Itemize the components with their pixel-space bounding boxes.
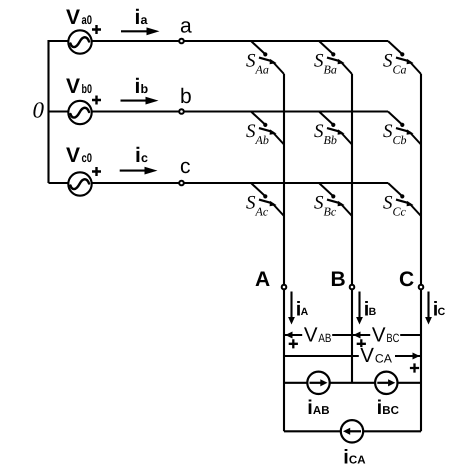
current iC arrow	[425, 292, 446, 325]
switch SCa	[383, 41, 421, 77]
voltage VBC arrow	[352, 324, 421, 349]
current source iBC	[375, 372, 399, 419]
svg-text:S: S	[246, 193, 256, 214]
svg-text:i: i	[135, 144, 141, 167]
wire output A	[283, 74, 285, 431]
svg-text:S: S	[314, 51, 324, 72]
svg-text:Bb: Bb	[324, 133, 337, 147]
svg-text:B: B	[331, 268, 346, 291]
svg-text:V: V	[360, 344, 374, 367]
node a	[179, 14, 192, 43]
svg-text:V: V	[66, 75, 80, 98]
switch SBb	[314, 112, 352, 148]
svg-text:S: S	[246, 121, 256, 142]
wire line c	[49, 182, 389, 184]
svg-text:BC: BC	[386, 331, 399, 345]
node b	[179, 85, 191, 114]
svg-text:V: V	[304, 324, 318, 347]
switch SAb	[246, 112, 284, 148]
voltage source Vb0	[66, 75, 101, 124]
svg-text:V: V	[372, 324, 386, 347]
svg-text:b: b	[141, 82, 149, 96]
current ic arrow	[120, 144, 158, 174]
voltage source Va0	[66, 6, 101, 54]
wire output C	[420, 74, 422, 431]
node C	[399, 268, 423, 291]
svg-text:AB: AB	[318, 331, 331, 345]
svg-text:a0: a0	[82, 13, 93, 27]
svg-text:S: S	[314, 121, 324, 142]
current ia arrow	[121, 6, 160, 35]
voltage source Vc0	[66, 144, 101, 196]
svg-text:A: A	[301, 306, 309, 318]
node A	[255, 268, 286, 291]
current ib arrow	[121, 75, 159, 104]
svg-text:B: B	[369, 306, 377, 318]
svg-text:c: c	[141, 151, 148, 165]
svg-text:Cc: Cc	[393, 205, 407, 219]
svg-text:Cb: Cb	[393, 133, 407, 147]
svg-text:Ca: Ca	[393, 63, 407, 77]
svg-text:Ac: Ac	[255, 205, 269, 219]
svg-text:V: V	[66, 6, 80, 29]
voltage VCA arrow	[284, 344, 421, 373]
svg-text:i: i	[135, 75, 141, 98]
svg-text:b0: b0	[82, 82, 93, 96]
svg-text:CA: CA	[375, 352, 392, 366]
current source iAB	[307, 372, 329, 419]
switch SBa	[314, 41, 352, 77]
svg-text:Ab: Ab	[255, 133, 269, 147]
current source iCA	[341, 420, 366, 468]
current iB arrow	[356, 292, 377, 325]
svg-text:Ba: Ba	[324, 63, 337, 77]
svg-text:S: S	[383, 51, 393, 72]
wire output B	[351, 74, 353, 383]
wire bottom row	[284, 430, 421, 432]
switch SAc	[246, 183, 284, 219]
wire current source row	[284, 382, 421, 384]
svg-text:c: c	[180, 155, 191, 178]
switch SCc	[383, 183, 421, 219]
svg-text:C: C	[438, 306, 446, 318]
switch SBc	[314, 183, 352, 219]
svg-text:V: V	[66, 144, 80, 167]
wire line b	[49, 110, 389, 112]
svg-text:b: b	[180, 85, 192, 108]
svg-text:AB: AB	[313, 405, 330, 417]
svg-text:c0: c0	[82, 151, 93, 165]
svg-text:0: 0	[33, 98, 45, 123]
svg-text:S: S	[383, 193, 393, 214]
voltage VAB arrow	[284, 324, 352, 349]
svg-text:C: C	[399, 268, 414, 291]
node c	[179, 155, 190, 185]
svg-text:i: i	[135, 6, 141, 29]
switch SAa	[246, 41, 284, 77]
svg-text:CA: CA	[349, 455, 366, 467]
svg-text:BC: BC	[382, 405, 399, 417]
node B	[331, 268, 355, 291]
svg-text:S: S	[314, 193, 324, 214]
svg-text:A: A	[255, 268, 270, 291]
svg-text:S: S	[246, 51, 256, 72]
svg-text:a: a	[180, 14, 192, 37]
current iA arrow	[288, 292, 309, 325]
svg-text:Aa: Aa	[255, 63, 269, 77]
svg-text:S: S	[383, 121, 393, 142]
wire line a	[49, 40, 389, 42]
switch SCb	[383, 112, 421, 148]
svg-text:a: a	[141, 13, 149, 27]
svg-text:Bc: Bc	[324, 205, 337, 219]
wire neutral bus 0	[47, 40, 49, 183]
